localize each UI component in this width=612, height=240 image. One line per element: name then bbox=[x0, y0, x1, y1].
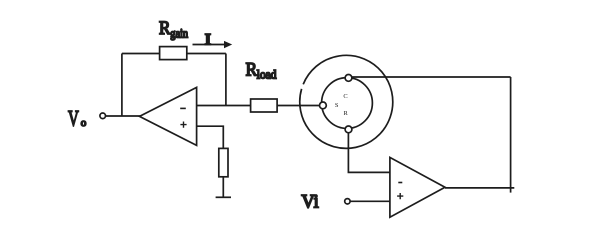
wire U2 output bbox=[445, 187, 514, 189]
minus sign U1 bbox=[180, 107, 186, 109]
svg-text:o: o bbox=[81, 117, 87, 129]
wire non-inverting input stub bbox=[197, 126, 224, 148]
wire Rload to synchro terminal S bbox=[277, 105, 320, 107]
wire right vertical from Rgain to inverting input node bbox=[225, 54, 227, 106]
wire Vi to U2 non-inverting input bbox=[350, 200, 390, 202]
svg-text:R: R bbox=[159, 19, 171, 39]
wire Vo terminal to op-amp U1 output (apex) bbox=[105, 115, 141, 117]
plus sign U2 bbox=[397, 193, 403, 199]
wire right vertical (feedback to output) bbox=[510, 77, 512, 193]
terminal Vi bbox=[345, 199, 350, 204]
wire inverting input node to Rload bbox=[197, 105, 251, 107]
wire resistor to ground bbox=[222, 177, 224, 198]
op-amp U1 bbox=[140, 87, 197, 145]
wire terminal C to right vertical bbox=[352, 76, 511, 78]
current arrow I bbox=[193, 44, 226, 46]
svg-text:R: R bbox=[246, 61, 258, 81]
svg-text:C: C bbox=[343, 93, 347, 100]
svg-text:gain: gain bbox=[170, 26, 188, 40]
svg-text:I: I bbox=[205, 31, 211, 48]
minus sign U2 bbox=[398, 182, 402, 184]
ground bbox=[216, 196, 231, 198]
terminal Vo bbox=[100, 113, 106, 119]
terminal R (bottom) bbox=[345, 126, 352, 133]
resistor Rgain bbox=[160, 47, 187, 60]
svg-text:load: load bbox=[257, 68, 277, 82]
wire terminal R down to U2 inverting input bbox=[348, 133, 390, 173]
svg-text:V: V bbox=[68, 105, 79, 130]
wire feedback left vertical bbox=[121, 54, 123, 117]
wire top feedback horizontal bbox=[122, 53, 226, 55]
terminal C (top) bbox=[345, 75, 352, 82]
op-amp U2 bbox=[390, 157, 445, 217]
plus sign U1 bbox=[180, 122, 186, 128]
svg-text:S: S bbox=[335, 102, 339, 109]
svg-text:R: R bbox=[344, 110, 349, 117]
terminal S (left) bbox=[320, 102, 327, 109]
outer circle (rotor housing, with gap upper-left) bbox=[300, 55, 393, 148]
resistor R1 (to ground) bbox=[219, 148, 228, 176]
inner circle (stator) bbox=[322, 78, 373, 129]
resistor Rload bbox=[251, 99, 278, 112]
svg-text:Vi: Vi bbox=[301, 193, 318, 213]
